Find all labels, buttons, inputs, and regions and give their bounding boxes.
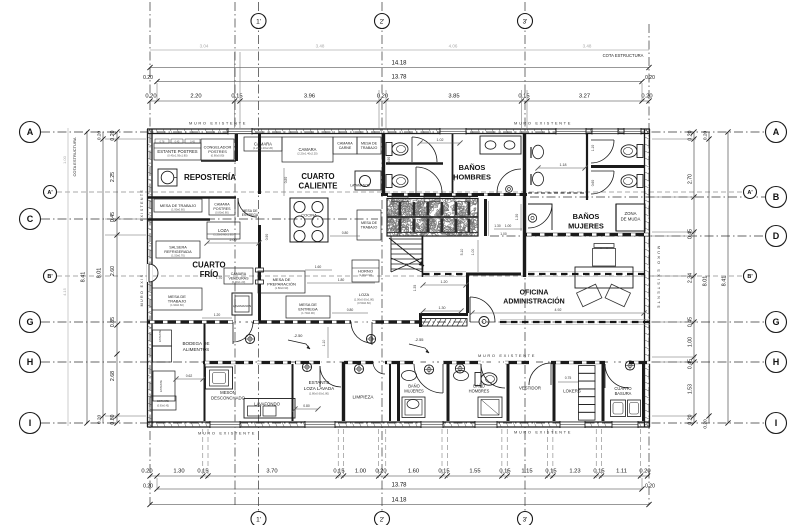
svg-text:0.20: 0.20 [141, 469, 152, 475]
wall oficina southwest y=314.5 [419, 313, 468, 316]
grid bubble 2' top [375, 14, 390, 29]
drain symbol bano mujeres [424, 365, 433, 374]
svg-text:1.15: 1.15 [521, 469, 532, 475]
grid line vertical left wall axis x=150 [149, 2, 151, 505]
grid bubble 2' bottom [375, 512, 390, 525]
svg-text:A': A' [47, 190, 53, 196]
svg-text:0.20: 0.20 [703, 131, 709, 141]
svg-text:2.60: 2.60 [110, 266, 116, 276]
svg-text:(2.20x1.40x2.20): (2.20x1.40x2.20) [297, 152, 317, 156]
svg-text:HORNO: HORNO [358, 268, 373, 273]
svg-text:POSTRES: POSTRES [208, 149, 227, 154]
wall estante-limpieza x=343.5 [342, 362, 345, 421]
window top wall 3 [556, 128, 586, 134]
wall corridor x=524.5 [523, 134, 526, 277]
svg-text:3.48: 3.48 [316, 44, 325, 49]
equipment CAMARA 2 [282, 137, 333, 162]
stall door arc bh 2 [416, 167, 442, 193]
svg-text:0.15: 0.15 [438, 469, 449, 475]
svg-text:MURO EXIS: MURO EXIS [140, 274, 144, 307]
svg-text:ZONA: ZONA [625, 211, 637, 216]
svg-text:4.06: 4.06 [449, 44, 458, 49]
svg-text:BAÑOS: BAÑOS [459, 163, 486, 172]
svg-text:(1.70x0.90): (1.70x0.90) [301, 311, 315, 315]
grid bubble 1' bottom [251, 512, 266, 525]
svg-text:B': B' [747, 274, 753, 280]
top dimension 13.78 [157, 81, 642, 83]
svg-text:BAÑOS: BAÑOS [573, 212, 600, 221]
svg-text:COTA ESTRUCTURA: COTA ESTRUCTURA [603, 53, 644, 58]
urinal symbol banos hombres [506, 186, 513, 193]
window bottom wall 2 [305, 421, 335, 427]
svg-text:1.10: 1.10 [322, 340, 326, 347]
equipment LAVAFONDO cuarto frio (lavamanos) [232, 293, 252, 315]
stove COCINA [290, 198, 328, 242]
hatch zone inner frame [387, 232, 478, 234]
svg-text:CAMARA: CAMARA [231, 272, 247, 276]
wall banos hombres south y=194.5 [381, 193, 527, 196]
svg-text:(1.50x0.70): (1.50x0.70) [171, 254, 185, 258]
svg-text:H: H [773, 357, 780, 367]
masonry tick hatch exterior left wall [148, 130, 152, 132]
shower banos mujeres [528, 204, 552, 230]
svg-text:1.80: 1.80 [338, 278, 345, 282]
wall exterior top [147, 128, 650, 130]
grid bubble D right [766, 226, 787, 247]
svg-text:B: B [773, 192, 780, 202]
svg-text:(1.20x1.20x2.20): (1.20x1.20x2.20) [253, 146, 273, 150]
svg-text:G: G [26, 317, 33, 327]
grid row axis I [41, 422, 765, 424]
svg-text:0.15: 0.15 [593, 469, 604, 475]
sink bano hombres [454, 371, 469, 381]
svg-text:0.45: 0.45 [688, 359, 694, 369]
wall H row segments [203, 361, 253, 364]
svg-text:5.10: 5.10 [460, 249, 464, 256]
equipment ESTANTE POSTRES [154, 143, 201, 160]
desk monitor shelf [594, 244, 614, 248]
equipment LOZA left [207, 222, 240, 239]
grid line vertical x=235 [234, 2, 236, 505]
stair direction line [389, 238, 424, 266]
wall right of hatch zone x=485 [484, 199, 487, 236]
grid bubble I left [20, 413, 41, 434]
svg-text:(1.20x0.60x1.80): (1.20x0.60x1.80) [213, 233, 233, 237]
wall oficina north dashed east [528, 271, 644, 273]
svg-text:BASURA: BASURA [615, 391, 632, 396]
svg-text:1.00: 1.00 [471, 249, 475, 256]
svg-text:1.30: 1.30 [173, 469, 184, 475]
wall oficina north dashed west [423, 271, 466, 273]
grid bubble H left [20, 352, 41, 373]
grid row axis B' [57, 275, 743, 277]
equipment MESA DE PREPARACION [258, 271, 305, 293]
dim 1.20 oficina upper [423, 284, 466, 286]
hatch zone vegetation fill [382, 195, 482, 242]
grid bubble A left [20, 122, 41, 143]
stall door arc bm 2 [591, 171, 614, 194]
wall banos mujeres south y=234.5 [524, 233, 650, 236]
svg-text:I: I [29, 418, 32, 428]
svg-text:1.18: 1.18 [560, 163, 567, 167]
svg-text:3.85: 3.85 [448, 94, 459, 100]
svg-text:OFICINA: OFICINA [520, 290, 549, 297]
svg-text:A: A [27, 127, 34, 137]
grid row axis D (right) [490, 235, 765, 237]
svg-text:MUJERES: MUJERES [568, 222, 604, 231]
wall reposteria south y=197.5 [147, 196, 236, 199]
block notches wall H row [205, 361, 210, 364]
wall congelador east x=236.5 [235, 134, 238, 161]
niche arc left wall [147, 264, 153, 282]
svg-text:DE MUDA: DE MUDA [621, 217, 641, 222]
svg-text:ADMINISTRACIÓN: ADMINISTRACIÓN [503, 297, 564, 306]
equipment HORNO [352, 260, 379, 282]
svg-text:14.18: 14.18 [391, 61, 407, 67]
svg-text:PREPARACIÓN: PREPARACIÓN [267, 282, 296, 287]
svg-text:1.23: 1.23 [569, 469, 580, 475]
svg-text:CUARTO: CUARTO [192, 261, 225, 270]
wall oficina west x=467.5 [466, 274, 469, 313]
svg-text:1.70: 1.70 [216, 276, 223, 280]
masonry tick hatch exterior bottom wall [149, 422, 151, 426]
wall bh partition x=452.5 [452, 134, 454, 193]
hatch zone middle shelf line [387, 216, 478, 218]
grid bubble I right [766, 413, 787, 434]
wall banos mujeres partition x=587 [586, 134, 588, 200]
svg-text:B': B' [47, 274, 53, 280]
svg-text:EXISTENTE: EXISTENTE [140, 189, 144, 222]
svg-text:0.20: 0.20 [97, 131, 103, 141]
shower bano hombres [478, 397, 502, 418]
svg-text:0.15: 0.15 [518, 94, 529, 100]
grid bubble 1' top [251, 14, 266, 29]
grid row axis H [41, 361, 765, 363]
hatch zone posts [399, 202, 402, 216]
svg-text:0.85: 0.85 [110, 317, 116, 327]
desk table [575, 267, 633, 288]
svg-text:1.00: 1.00 [505, 224, 512, 228]
equipment CAMARA VERDURAS [224, 268, 253, 284]
wall oficina north y=274 solid part [466, 273, 521, 276]
wall exterior bottom [147, 421, 650, 423]
door arc bano hombres [481, 364, 505, 388]
svg-text:0.15: 0.15 [231, 94, 242, 100]
door arc bano mujeres [414, 364, 443, 393]
svg-text:MURO EXISTENTE: MURO EXISTENTE [478, 353, 536, 358]
grid bubble B' right [744, 270, 757, 283]
wall exterior right [644, 129, 646, 427]
svg-text:8.01: 8.01 [97, 268, 103, 279]
desk chair [593, 249, 616, 267]
svg-text:C: C [27, 214, 34, 224]
svg-text:1.10: 1.10 [591, 145, 595, 152]
svg-text:CARNE: CARNE [339, 146, 352, 150]
svg-text:14.18: 14.18 [391, 498, 407, 504]
svg-text:8.41: 8.41 [81, 272, 87, 283]
svg-text:3.70: 3.70 [266, 469, 277, 475]
svg-text:(1.90x0.60): (1.90x0.60) [171, 208, 185, 212]
bottom extension lines [202, 429, 204, 478]
left structural cota line (gray) [67, 128, 69, 426]
svg-text:3': 3' [523, 18, 528, 25]
stair cross lines [391, 258, 422, 272]
svg-text:3': 3' [523, 516, 528, 523]
right extension lines [652, 138, 696, 140]
shelf micro boxes above estante postres [155, 139, 169, 143]
toilet banos mujeres 2 [637, 175, 643, 188]
wall cuarto basura east x=643 [642, 362, 644, 421]
equipment CAMARA DE POSTRES [209, 198, 235, 215]
svg-text:LAVAMANOS: LAVAMANOS [233, 304, 251, 308]
svg-text:13.78: 13.78 [391, 75, 407, 81]
svg-text:HOMBRES: HOMBRES [469, 389, 490, 394]
door arc reposteria south opening [238, 198, 257, 217]
equipment CONGELADOR POSTRES [201, 139, 234, 160]
top overall dimension 14.18 [150, 67, 649, 69]
svg-text:0.15: 0.15 [333, 469, 344, 475]
svg-text:1.20: 1.20 [214, 313, 221, 317]
svg-text:ALIMENTOS: ALIMENTOS [183, 347, 209, 352]
svg-text:1.20: 1.20 [441, 280, 448, 284]
drain symbol corridor right [366, 334, 375, 343]
dim 1.20 cuarto frio lower [202, 317, 232, 319]
wall camara shelf line y=161 [201, 160, 236, 162]
grid bubble G left [20, 312, 41, 333]
window bottom wall 1 [210, 421, 240, 427]
dim 1.02 bh [420, 142, 460, 144]
drain symbol bano hombres [455, 364, 464, 373]
toilet banos hombres 2 [386, 175, 392, 188]
svg-text:0.20: 0.20 [375, 469, 386, 475]
svg-text:BODEGA DE: BODEGA DE [182, 341, 209, 346]
svg-text:0.20: 0.20 [645, 484, 655, 490]
dim 1.18 banos mujeres [538, 167, 585, 169]
svg-text:1.11: 1.11 [616, 469, 627, 475]
svg-text:1.60: 1.60 [315, 265, 322, 269]
dim 1.30 oficina [423, 310, 461, 312]
svg-text:0.60: 0.60 [591, 180, 595, 187]
svg-text:1': 1' [256, 516, 261, 523]
sink meson desconchado [206, 367, 233, 389]
svg-text:(1.80x0.90): (1.80x0.90) [275, 286, 289, 290]
top dimension chain [150, 100, 649, 102]
door frame on divider [256, 268, 264, 272]
svg-text:(0.80x0.80): (0.80x0.80) [215, 211, 229, 215]
svg-text:I: I [775, 418, 778, 428]
svg-text:0.80: 0.80 [452, 175, 456, 182]
grid row axis B (right) [530, 196, 765, 198]
svg-text:-2.50: -2.50 [294, 333, 304, 338]
svg-text:0.15: 0.15 [545, 469, 556, 475]
svg-text:0.20: 0.20 [377, 94, 388, 100]
svg-text:A': A' [747, 190, 753, 196]
svg-text:MURO EXISTENTE: MURO EXISTENTE [198, 431, 256, 436]
grid row axis C (left) [41, 218, 378, 220]
svg-text:13.78: 13.78 [391, 483, 407, 489]
equipment MESA DE TRABAJO east wall [357, 210, 381, 240]
svg-text:(0.90x1.20): (0.90x1.20) [232, 280, 246, 284]
window bottom wall 5 [560, 421, 585, 427]
wall bottom-right section west x=398.5 [397, 362, 400, 421]
grid bubble A right [766, 122, 787, 143]
window top wall 1 [228, 128, 252, 134]
wall G row dashed east [500, 319, 650, 321]
svg-text:0.20: 0.20 [641, 94, 652, 100]
shelf boxes bodega [153, 330, 172, 346]
left dimension chain [116, 132, 118, 423]
right dimension chain [693, 132, 695, 423]
svg-text:1.02: 1.02 [437, 138, 444, 142]
svg-text:MURO EXISTENTE: MURO EXISTENTE [514, 121, 572, 126]
sink counter banos hombres [480, 136, 521, 154]
grid bubble C left [20, 209, 41, 230]
dim 0.80 estante room [295, 408, 318, 410]
grid bubble 3' bottom [518, 512, 533, 525]
dim 4.92 oficina [472, 312, 644, 314]
svg-text:0.45: 0.45 [688, 229, 694, 239]
dim 2.00 loza [207, 242, 259, 244]
window top wall 5 [624, 128, 641, 134]
svg-text:D: D [773, 231, 780, 241]
lokers stack [579, 366, 596, 374]
svg-text:1.00: 1.00 [688, 337, 694, 347]
column symbol oficina door [479, 317, 489, 327]
svg-text:1.00: 1.00 [62, 155, 67, 164]
svg-text:CUARTO: CUARTO [301, 172, 334, 181]
sink lavafondo [244, 399, 295, 419]
grid line vertical axis 3' [524, 2, 526, 511]
toilet banos mujeres 1 [637, 145, 643, 158]
svg-text:MESA DE: MESA DE [361, 142, 378, 146]
bottom overall dimension 14.18 [150, 504, 649, 506]
wall G row segment 3 [372, 320, 420, 323]
svg-text:0.62: 0.62 [186, 374, 193, 378]
svg-text:ENTREGA: ENTREGA [242, 213, 259, 217]
grid bubble G right [766, 312, 787, 333]
door arc oficina entry [470, 297, 495, 322]
svg-text:SALSERA: SALSERA [169, 246, 187, 250]
svg-text:0.20: 0.20 [97, 415, 103, 425]
svg-text:COCINA: COCINA [301, 213, 317, 218]
toilet bano mujeres [407, 400, 419, 409]
wall stair east x=422.5 [422, 236, 424, 277]
svg-text:G: G [772, 317, 779, 327]
svg-text:(0.80x0.80): (0.80x0.80) [211, 154, 225, 158]
svg-text:1.60: 1.60 [408, 469, 419, 475]
svg-text:1': 1' [256, 18, 261, 25]
svg-text:MURO EXISTENTE: MURO EXISTENTE [657, 246, 661, 311]
grid line vertical axis 2' [381, 2, 383, 511]
right overall dimension 8.41 [727, 132, 729, 423]
equipment CAMARA 1 [244, 137, 282, 151]
door arc vestidor [529, 363, 551, 385]
svg-text:0.20: 0.20 [703, 419, 709, 429]
wall banos hombres west x=383.5 [382, 134, 385, 196]
svg-text:0.20: 0.20 [143, 75, 153, 81]
svg-text:4.15: 4.15 [62, 287, 67, 296]
svg-text:3.27: 3.27 [579, 94, 590, 100]
window top wall 2 [440, 128, 466, 134]
svg-text:A: A [773, 127, 780, 137]
svg-text:1.35: 1.35 [413, 285, 417, 292]
svg-text:1.00: 1.00 [500, 232, 507, 236]
svg-text:0.45: 0.45 [110, 212, 116, 222]
masonry tick hatch exterior right wall [645, 130, 650, 132]
sink banos mujeres 2 [533, 172, 544, 186]
equipment MESA DE ENTREGA south [286, 296, 330, 318]
svg-text:MURO EXISTENTE: MURO EXISTENTE [514, 430, 572, 435]
svg-text:CAMARA: CAMARA [299, 147, 317, 152]
svg-text:HOMBRES: HOMBRES [453, 173, 491, 182]
wall lokers east x=603 [602, 362, 605, 421]
svg-text:VERDURAS: VERDURAS [229, 277, 250, 281]
wall kitchen divider x=259.5 lower [258, 225, 261, 322]
svg-text:LIMPIEZA: LIMPIEZA [353, 395, 375, 400]
svg-text:2.68: 2.68 [110, 371, 116, 381]
svg-text:(1.90x0.60): (1.90x0.60) [170, 303, 184, 307]
equipment MESA DE TRABAJO top right [357, 137, 381, 154]
basins cuarto basura [611, 400, 626, 417]
window bottom wall 4 [475, 421, 497, 427]
toilet banos hombres 1 [386, 143, 392, 156]
sink bano mujeres [402, 371, 417, 381]
stall door arc bh 1 [412, 137, 437, 162]
equipment boxes above hatch zone [392, 197, 408, 202]
grid bubble H right [766, 352, 787, 373]
shelf box small bodega [150, 396, 176, 410]
svg-text:(1.00x0.60x1.80): (1.00x0.60x1.80) [354, 298, 374, 302]
svg-text:1.55: 1.55 [469, 469, 480, 475]
equipment CAMARA CARNE [333, 137, 357, 154]
svg-text:8.41: 8.41 [722, 276, 728, 287]
left extension lines [105, 138, 146, 140]
svg-text:0.90: 0.90 [387, 157, 391, 164]
svg-text:(0.50x0.60): (0.50x0.60) [357, 301, 371, 305]
svg-text:0.80: 0.80 [303, 404, 310, 408]
svg-text:2': 2' [380, 516, 385, 523]
svg-text:LOZA LAVADA: LOZA LAVADA [304, 386, 335, 391]
door arc bodega (G wall left) [233, 322, 253, 342]
stair treads [391, 238, 422, 240]
door arc cuarto basura [605, 364, 629, 388]
wall kitchen divider x=259.5 upper [258, 134, 261, 194]
svg-text:0.90: 0.90 [265, 234, 269, 241]
svg-text:TRABAJO: TRABAJO [361, 146, 378, 150]
grid bubble B' left [44, 270, 57, 283]
svg-text:0.20: 0.20 [145, 94, 156, 100]
svg-text:2.34: 2.34 [688, 273, 694, 283]
drain symbol meson [302, 362, 311, 371]
door arc estante loza [320, 366, 341, 387]
block notches wall bm south [527, 233, 532, 236]
left dimension 8.01 [102, 132, 104, 423]
dim 0.62 bodega [176, 378, 203, 380]
svg-text:0.20: 0.20 [645, 75, 655, 81]
svg-text:3.04: 3.04 [200, 44, 209, 49]
wall row C stub y=219.5 [147, 218, 210, 220]
drain symbol bodega [245, 334, 254, 343]
window top wall 4 [592, 128, 618, 134]
desk visitor chair right [605, 284, 630, 306]
svg-text:0.80: 0.80 [342, 231, 349, 235]
grid line vertical axis 1' [258, 2, 260, 511]
svg-text:REPOSTERÍA: REPOSTERÍA [184, 173, 236, 182]
wall G row segment 2 [253, 320, 351, 323]
svg-text:(1.00x0.90): (1.00x0.90) [359, 273, 373, 277]
svg-text:VESTIDOR: VESTIDOR [519, 386, 541, 391]
wall hatch zone border [387, 199, 478, 237]
